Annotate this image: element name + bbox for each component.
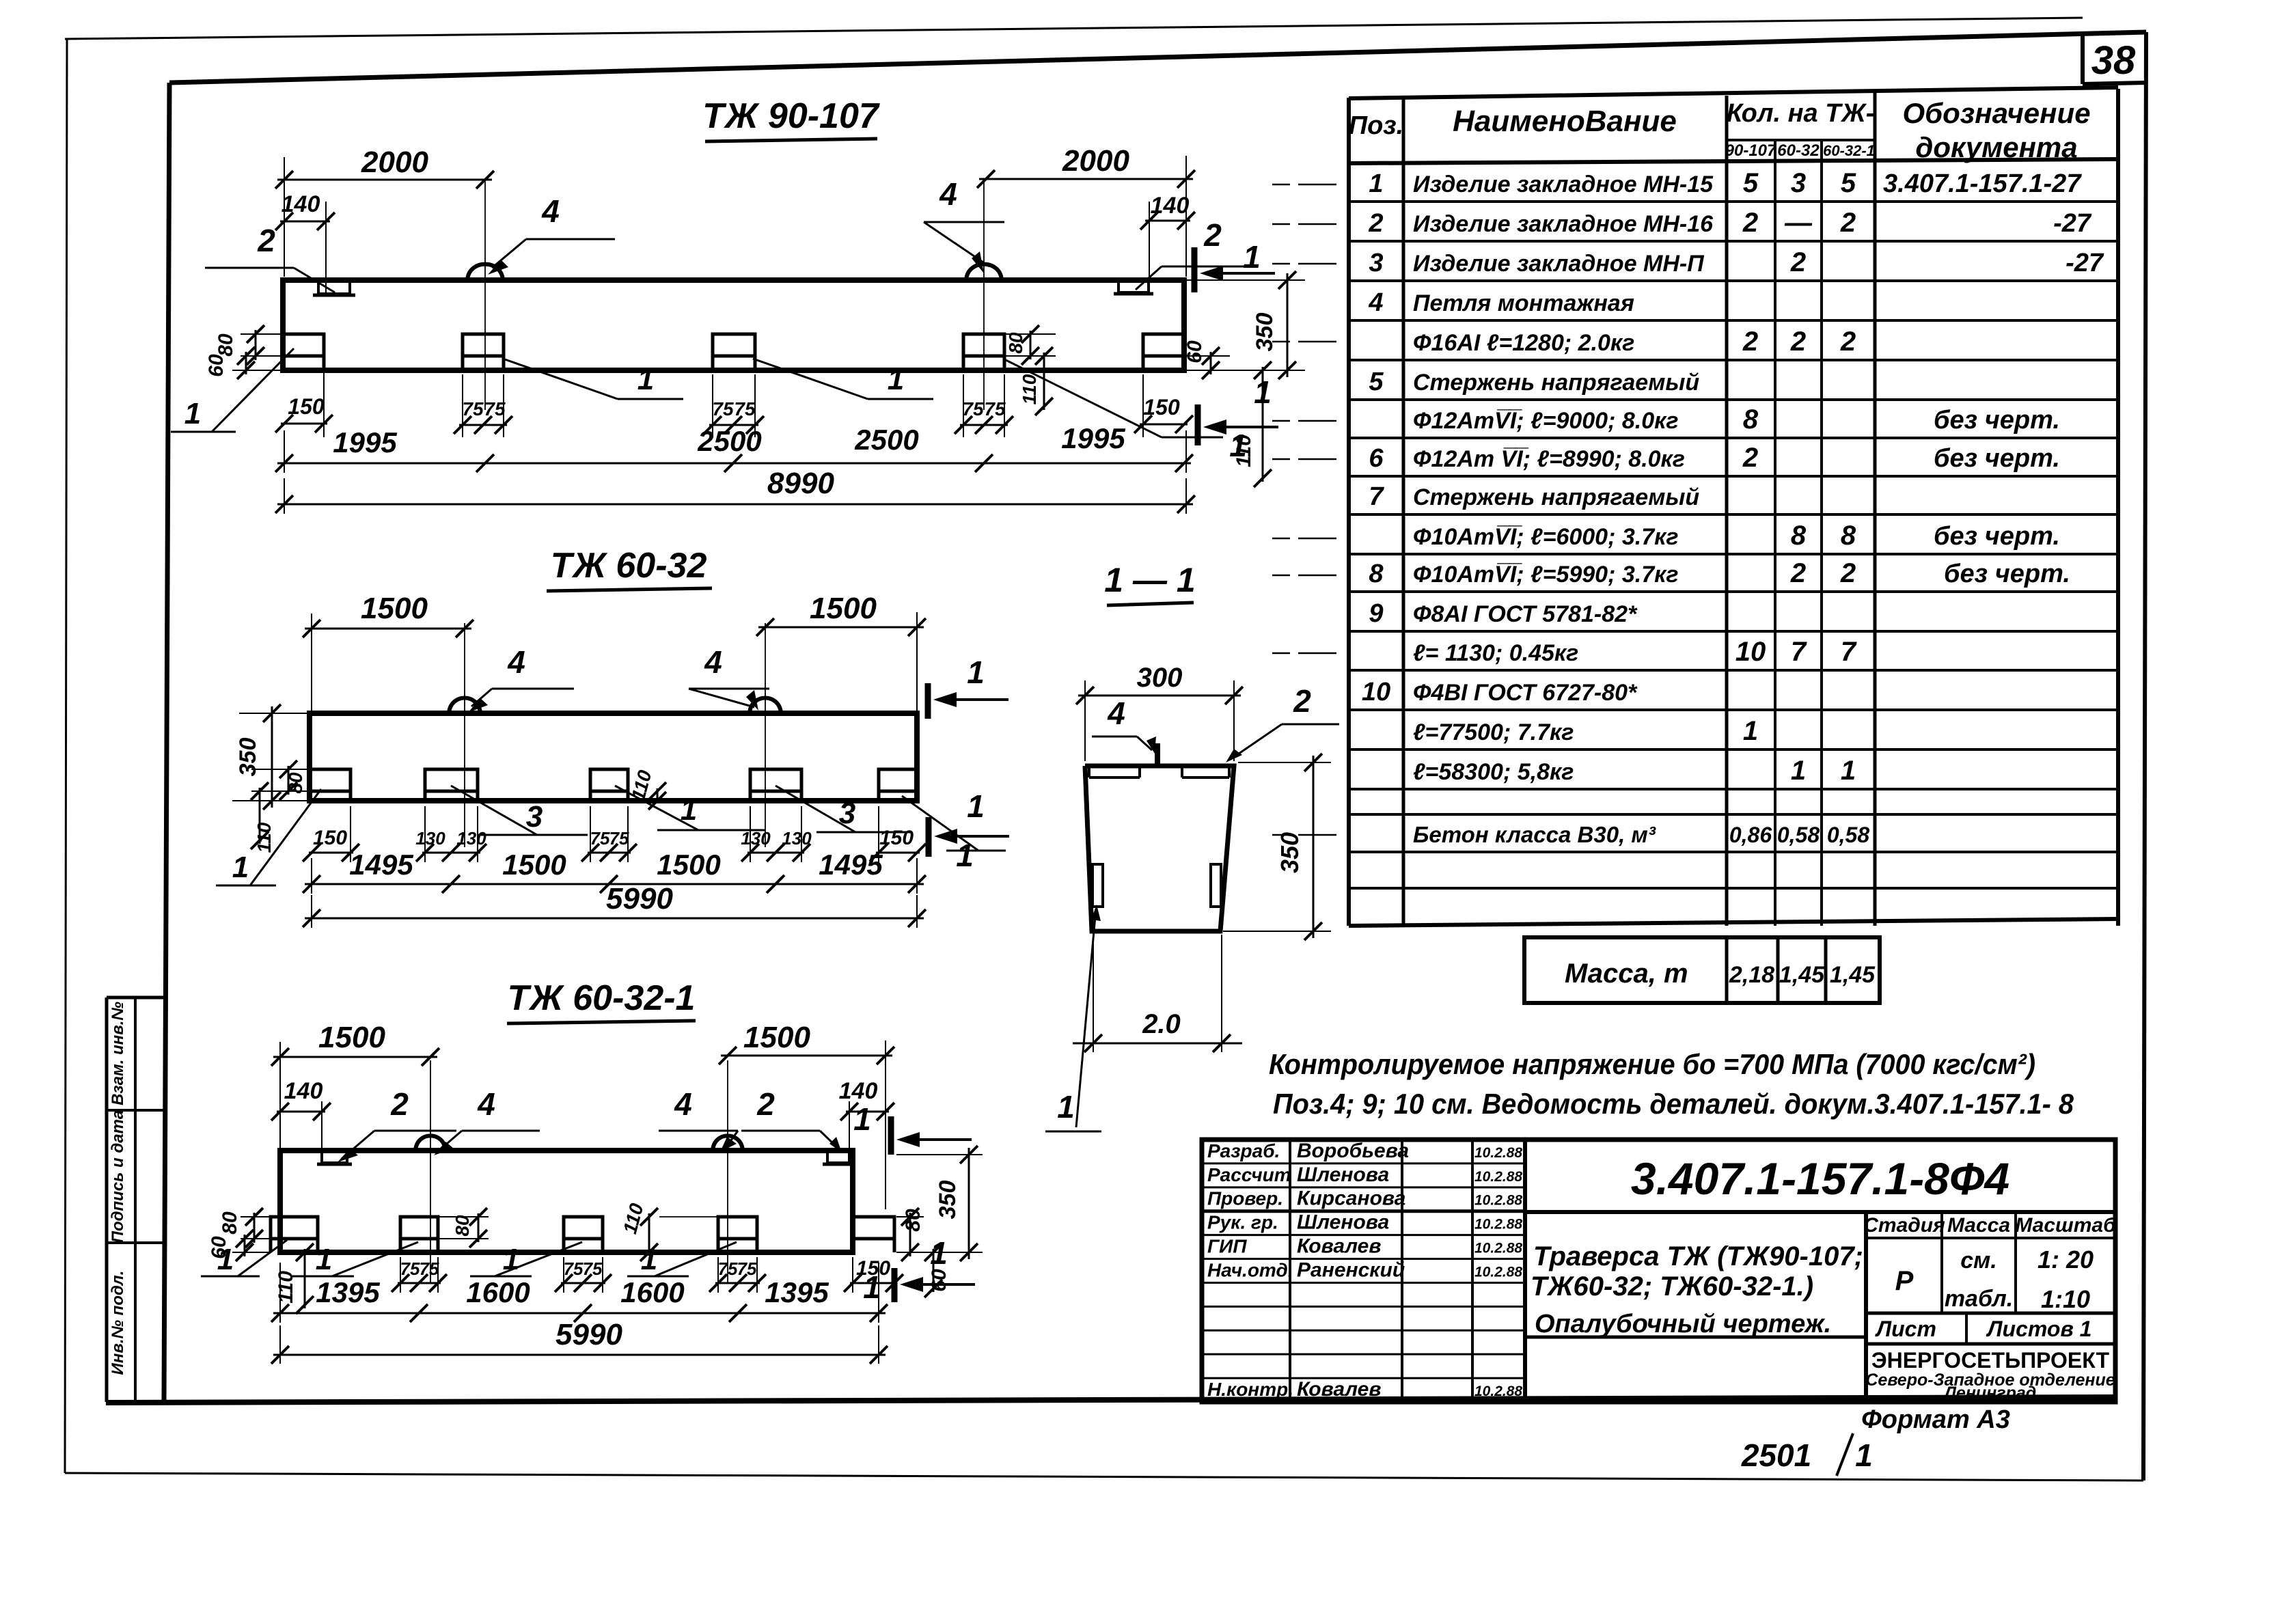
svg-text:8: 8 <box>1841 521 1856 551</box>
svg-text:350: 350 <box>935 1181 961 1220</box>
svg-text:1: 1 <box>217 1243 234 1276</box>
chain dimension 1995 2500 2500 1995 (beam 1) <box>284 430 285 473</box>
svg-text:1500: 1500 <box>657 849 720 881</box>
svg-text:2: 2 <box>1742 327 1758 357</box>
svg-text:3.407.1-157.1-8Ф4: 3.407.1-157.1-8Ф4 <box>1631 1153 2009 1204</box>
embedded plate item 1 slot 1 protruding left (beam 3) <box>271 1217 318 1252</box>
svg-text:ℓ= 1130; 0.45кг: ℓ= 1130; 0.45кг <box>1413 640 1578 666</box>
svg-text:2: 2 <box>257 223 275 258</box>
title block organization cell <box>1866 1343 2115 1346</box>
svg-text:2500: 2500 <box>697 425 761 457</box>
svg-text:60-32: 60-32 <box>1777 141 1820 160</box>
svg-text:10.2.88: 10.2.88 <box>1474 1217 1522 1233</box>
svg-text:Стержень напрягаемый: Стержень напрягаемый <box>1413 370 1699 396</box>
svg-text:150: 150 <box>1143 395 1180 419</box>
svg-text:350: 350 <box>1252 313 1278 352</box>
svg-text:10.2.88: 10.2.88 <box>1474 1169 1522 1185</box>
svg-text:Бетон класса В30, м³: Бетон класса В30, м³ <box>1413 822 1656 847</box>
svg-text:150: 150 <box>856 1257 890 1280</box>
section 1-1 trapezoid outline <box>1085 766 1234 931</box>
svg-text:2: 2 <box>756 1086 775 1122</box>
dimension 5990 overall (beam 2) <box>311 895 312 928</box>
svg-text:1: 1 <box>1791 756 1806 786</box>
svg-text:80: 80 <box>285 772 306 794</box>
svg-text:150: 150 <box>879 827 914 849</box>
svg-text:140: 140 <box>284 1078 323 1104</box>
svg-text:3: 3 <box>1369 249 1383 277</box>
svg-text:38: 38 <box>2091 38 2136 83</box>
dimension 60 80 left side (beam 1) <box>241 333 283 335</box>
svg-text:1500: 1500 <box>318 1021 385 1054</box>
svg-text:4: 4 <box>674 1086 692 1122</box>
svg-text:4: 4 <box>1368 288 1383 317</box>
svg-text:75: 75 <box>609 828 629 849</box>
svg-text:5990: 5990 <box>606 882 673 916</box>
svg-text:6: 6 <box>1369 444 1384 473</box>
svg-text:0,58: 0,58 <box>1777 823 1820 847</box>
svg-text:Шленова: Шленова <box>1297 1211 1389 1234</box>
svg-text:Взам. инв.№: Взам. инв.№ <box>109 1002 127 1105</box>
svg-text:1: 1 <box>853 1101 871 1137</box>
svg-text:1: 1 <box>967 788 985 824</box>
svg-text:75: 75 <box>962 398 984 419</box>
title block stadiya massa masshtab <box>1864 1212 1868 1402</box>
svg-text:4: 4 <box>704 644 722 680</box>
leader 1 slot 2 (beam 1) <box>503 359 618 399</box>
svg-text:75: 75 <box>564 1258 584 1279</box>
svg-text:1: 1 <box>232 851 249 884</box>
svg-text:1600: 1600 <box>466 1276 530 1308</box>
svg-text:Инв.№ подл.: Инв.№ подл. <box>109 1271 127 1375</box>
svg-text:Обозначение: Обозначение <box>1902 97 2090 129</box>
leader 1 slot 2 (beam 3) <box>332 1242 418 1276</box>
embedded plate item 3 slot 2 (beam 2) <box>425 769 478 801</box>
lifting loop item 4 right (beam 1) <box>966 264 1002 280</box>
svg-text:80: 80 <box>1005 332 1026 354</box>
svg-text:80: 80 <box>215 333 237 357</box>
svg-text:2.0: 2.0 <box>1142 1009 1181 1039</box>
svg-text:Масса, т: Масса, т <box>1565 959 1688 989</box>
svg-text:1: 1 <box>956 838 974 873</box>
svg-text:ГИП: ГИП <box>1207 1236 1247 1257</box>
svg-text:75: 75 <box>484 398 506 419</box>
svg-text:1395: 1395 <box>316 1276 380 1308</box>
svg-text:2: 2 <box>1203 217 1222 253</box>
svg-text:Изделие закладное МН-П: Изделие закладное МН-П <box>1413 251 1705 277</box>
svg-text:Нач.отд.: Нач.отд. <box>1207 1259 1293 1280</box>
svg-text:ℓ=58300; 5,8кг: ℓ=58300; 5,8кг <box>1413 759 1574 785</box>
title block designation cell <box>1525 1210 2115 1214</box>
section plate notch right <box>1182 776 1229 779</box>
svg-text:Стадия: Стадия <box>1863 1214 1945 1237</box>
svg-text:2: 2 <box>1368 209 1383 238</box>
leader 1 left end (beam 3) <box>238 1240 287 1276</box>
svg-text:2: 2 <box>1790 327 1806 357</box>
svg-text:75: 75 <box>737 1258 757 1279</box>
svg-text:10: 10 <box>1362 678 1390 706</box>
embedded plate item 1 slot 1 (beam 1) <box>283 334 324 370</box>
svg-text:2: 2 <box>1293 683 1311 719</box>
dimension 350 80 110 left side (beam 2) <box>239 713 310 714</box>
svg-text:1: 1 <box>184 397 201 430</box>
svg-text:2: 2 <box>1790 247 1806 277</box>
svg-text:75: 75 <box>400 1258 420 1279</box>
svg-text:3.407.1-157.1-27: 3.407.1-157.1-27 <box>1883 169 2082 198</box>
svg-text:60: 60 <box>205 354 228 377</box>
svg-text:7: 7 <box>1791 637 1807 667</box>
section flag 1-1 bottom right (beam 1) <box>1195 404 1201 445</box>
svg-text:130: 130 <box>415 828 445 849</box>
svg-text:Опалубочный чертеж.: Опалубочный чертеж. <box>1535 1310 1831 1338</box>
embedded plate item 3 slot 4 (beam 2) <box>750 769 801 801</box>
leader 1 slot 4 right (beam 1) <box>1003 359 1162 437</box>
svg-text:Изделие закладное МН-15: Изделие закладное МН-15 <box>1413 171 1714 197</box>
svg-text:1: 20: 1: 20 <box>2037 1245 2094 1274</box>
svg-text:80: 80 <box>452 1215 473 1237</box>
svg-text:0,58: 0,58 <box>1827 823 1869 847</box>
svg-text:75: 75 <box>984 398 1006 419</box>
svg-text:1,45: 1,45 <box>1779 962 1825 988</box>
leader 3 slot 2 (beam 2) <box>451 786 537 835</box>
svg-text:1 — 1: 1 — 1 <box>1104 561 1195 599</box>
svg-text:130: 130 <box>456 828 486 849</box>
svg-text:2: 2 <box>390 1086 409 1122</box>
svg-text:Раненский: Раненский <box>1297 1258 1405 1281</box>
sheet edge left (thin) <box>65 39 67 1473</box>
slot width dimensions 75 75 150 (beam 3) <box>400 1257 401 1293</box>
embedded plate item 1 slot 3 (beam 1) <box>713 334 755 370</box>
svg-text:7: 7 <box>1841 637 1857 667</box>
svg-text:8: 8 <box>1369 560 1384 588</box>
svg-text:1: 1 <box>503 1243 519 1276</box>
svg-text:Ковалев: Ковалев <box>1297 1235 1381 1258</box>
svg-text:ℓ=77500; 7.7кг: ℓ=77500; 7.7кг <box>1413 719 1574 745</box>
svg-text:75: 75 <box>462 398 484 419</box>
embedded plate item 1 slot 3 (beam 2) <box>590 769 628 801</box>
svg-text:Лист: Лист <box>1875 1317 1936 1341</box>
embedded plate item 1 slot 5 (beam 1) <box>1143 334 1184 370</box>
svg-text:350: 350 <box>235 738 261 777</box>
svg-text:-27: -27 <box>2053 209 2092 238</box>
svg-text:7: 7 <box>1369 482 1384 511</box>
svg-text:Воробьева: Воробьева <box>1297 1140 1409 1162</box>
svg-text:75: 75 <box>583 1258 603 1279</box>
svg-text:60: 60 <box>1183 340 1206 363</box>
svg-text:документа: документа <box>1915 131 2077 163</box>
title block signature grid <box>1202 1162 1525 1164</box>
svg-text:Подпись и дата: Подпись и дата <box>109 1110 127 1243</box>
svg-text:110: 110 <box>253 822 275 853</box>
svg-text:5: 5 <box>1841 168 1856 198</box>
frame right border <box>2143 32 2146 1481</box>
title block list row <box>1866 1312 2115 1315</box>
svg-text:Формат А3: Формат А3 <box>1861 1405 2010 1434</box>
svg-text:Кол. на ТЖ-: Кол. на ТЖ- <box>1727 99 1875 128</box>
lifting loop item 4 left (beam 2) <box>449 698 480 714</box>
dimension 60 and 350 right side (beam 1) <box>1186 279 1305 281</box>
svg-text:4: 4 <box>1107 696 1125 731</box>
section dimension 350 <box>1238 762 1331 763</box>
svg-text:5: 5 <box>1743 168 1759 198</box>
svg-text:1500: 1500 <box>361 592 428 625</box>
svg-text:1,45: 1,45 <box>1830 962 1876 988</box>
embedded plate slot 1 (beam 2) <box>310 769 351 801</box>
svg-text:1: 1 <box>888 363 904 396</box>
section flag 1-1 top right (beam 2) <box>925 683 931 719</box>
svg-text:-27: -27 <box>2066 249 2104 277</box>
svg-text:75: 75 <box>734 398 756 419</box>
svg-text:табл.: табл. <box>1945 1286 2013 1312</box>
svg-text:ТЖ 60-32: ТЖ 60-32 <box>551 546 707 586</box>
svg-text:1600: 1600 <box>620 1276 684 1308</box>
embedded plate item 1 slot 4 (beam 1) <box>963 334 1004 370</box>
svg-text:140: 140 <box>839 1078 878 1104</box>
svg-text:Ф8АI ГОСТ 5781-82*: Ф8АI ГОСТ 5781-82* <box>1413 601 1638 627</box>
svg-text:2: 2 <box>1742 208 1758 238</box>
svg-text:без черт.: без черт. <box>1934 444 2060 473</box>
svg-text:Масштаб: Масштаб <box>2015 1214 2117 1237</box>
leader 1 right end (beam 2) <box>902 796 978 851</box>
svg-text:Листов 1: Листов 1 <box>1986 1317 2092 1341</box>
svg-text:Ф16АI ℓ=1280; 2.0кг: Ф16АI ℓ=1280; 2.0кг <box>1413 330 1634 356</box>
slot width dimensions 150 75 75 (beam 1) <box>323 359 325 437</box>
svg-text:1495: 1495 <box>819 849 883 881</box>
page number box 38 <box>2081 33 2085 84</box>
svg-text:1: 1 <box>1855 1437 1873 1473</box>
section flag 1-1 top right (beam 1) <box>1192 247 1198 292</box>
svg-text:Поз.: Поз. <box>1349 111 1404 140</box>
svg-text:без черт.: без черт. <box>1934 406 2060 435</box>
embedded plate item 1 slot 4 (beam 3) <box>718 1217 757 1252</box>
svg-text:2: 2 <box>1790 558 1806 588</box>
svg-text:1: 1 <box>316 1243 332 1276</box>
svg-text:Кирсанова: Кирсанова <box>1297 1187 1405 1210</box>
svg-text:1:10: 1:10 <box>2041 1285 2090 1313</box>
svg-text:4: 4 <box>507 644 525 680</box>
svg-text:130: 130 <box>782 828 812 849</box>
svg-text:Ковалев: Ковалев <box>1297 1378 1381 1401</box>
title block outer box <box>1202 1140 2115 1402</box>
section flag 1-1 bottom right (beam 3) <box>892 1268 898 1302</box>
svg-text:1500: 1500 <box>743 1021 810 1054</box>
svg-text:без черт.: без черт. <box>1944 560 2070 588</box>
chain dimension 1495 1500 1500 1495 (beam 2) <box>311 858 312 894</box>
beam TZh 90-107 outline <box>283 280 1184 370</box>
section side slot right <box>1211 864 1221 907</box>
svg-text:10.2.88: 10.2.88 <box>1474 1384 1522 1399</box>
dimension 80 110 at slot 4 (beam 1) <box>1030 331 1032 359</box>
svg-text:4: 4 <box>477 1086 495 1122</box>
svg-text:80: 80 <box>219 1211 241 1235</box>
leader 3 slot 4 (beam 2) <box>776 786 855 832</box>
embedded plate item 2 top-left (beam 1) <box>318 280 350 294</box>
svg-text:1: 1 <box>1057 1089 1075 1125</box>
left margin column box <box>105 997 109 1402</box>
section side slot left <box>1093 864 1103 907</box>
slot width dimensions (beam 2) <box>350 806 351 862</box>
embedded plate slot 5 (beam 2) <box>879 769 917 801</box>
embedded plate item 1 slot 2 (beam 3) <box>400 1217 438 1252</box>
parts table grid <box>1349 87 2118 98</box>
svg-text:Провер.: Провер. <box>1207 1188 1283 1209</box>
svg-text:3: 3 <box>1791 168 1806 198</box>
svg-text:150: 150 <box>313 827 347 849</box>
svg-text:4: 4 <box>939 176 957 212</box>
svg-text:Шленова: Шленова <box>1297 1164 1389 1186</box>
embedded plate item 2 top-right (beam 3) <box>827 1151 849 1163</box>
leader 1 slot 3 (beam 3) <box>495 1242 582 1276</box>
svg-text:Рук. гр.: Рук. гр. <box>1207 1212 1278 1233</box>
dimension 110 at slot 3 (beam 2) <box>657 788 659 803</box>
embedded plate item 1 slot 2 (beam 1) <box>463 334 504 370</box>
svg-text:0,86: 0,86 <box>1729 823 1772 847</box>
svg-text:1995: 1995 <box>1061 422 1125 454</box>
sheet edge top (thin) <box>65 18 2083 39</box>
svg-text:75: 75 <box>712 398 734 419</box>
svg-text:Поз.4; 9; 10 см. Ведомость: Поз.4; 9; 10 см. Ведомость деталей. доку… <box>1273 1088 2074 1120</box>
svg-text:Изделие закладное МН-16: Изделие закладное МН-16 <box>1413 211 1714 237</box>
svg-text:1995: 1995 <box>333 426 397 458</box>
svg-text:1: 1 <box>1243 239 1261 275</box>
section plate notch left <box>1089 776 1140 779</box>
svg-text:2501: 2501 <box>1741 1437 1811 1473</box>
frame top border <box>169 32 2146 83</box>
svg-text:1: 1 <box>1743 716 1758 746</box>
svg-text:2000: 2000 <box>1062 144 1129 178</box>
lifting loop item 4 right (beam 3) <box>713 1136 743 1151</box>
svg-text:1: 1 <box>1369 169 1383 198</box>
svg-text:10.2.88: 10.2.88 <box>1474 1264 1522 1280</box>
svg-text:ТЖ 60-32-1: ТЖ 60-32-1 <box>508 978 696 1018</box>
svg-text:350: 350 <box>1276 832 1304 873</box>
svg-text:75: 75 <box>420 1258 439 1279</box>
svg-text:3: 3 <box>526 800 543 834</box>
svg-text:Ф4ВI ГОСТ 6727-80*: Ф4ВI ГОСТ 6727-80* <box>1413 680 1638 706</box>
svg-text:300: 300 <box>1137 663 1183 693</box>
dimension 5990 overall (beam 3) <box>279 1325 281 1364</box>
section flag 1-1 bottom right (beam 2) <box>926 817 932 857</box>
leader 1 slot 4 (beam 3) <box>655 1242 737 1276</box>
leader 1 left end (beam 1) <box>212 348 294 432</box>
svg-text:ЭНЕРГОСЕТЬПРОЕКТ: ЭНЕРГОСЕТЬПРОЕКТ <box>1871 1348 2110 1373</box>
svg-text:Петля монтажная: Петля монтажная <box>1413 290 1634 316</box>
svg-text:60: 60 <box>928 1269 950 1292</box>
svg-text:Н.контр.: Н.контр. <box>1207 1379 1293 1400</box>
svg-text:75: 75 <box>590 828 610 849</box>
dimension 80 110 mid (beam 3) <box>478 1213 480 1242</box>
svg-text:Контролируемое напряжение бо: Контролируемое напряжение бо =700 МПа (7… <box>1269 1048 2035 1080</box>
svg-text:Ф12АтV̅I̅; ℓ=9000; 8.0кг: Ф12АтV̅I̅; ℓ=9000; 8.0кг <box>1413 408 1679 434</box>
leader 1 slot 3 (beam 2) <box>615 786 698 830</box>
embedded plate item 1 slot 5 protruding right (beam 3) <box>853 1217 894 1252</box>
svg-text:1500: 1500 <box>810 592 877 625</box>
svg-text:2000: 2000 <box>361 146 428 179</box>
svg-text:80: 80 <box>902 1209 924 1232</box>
svg-text:1500: 1500 <box>502 849 566 881</box>
svg-text:1: 1 <box>641 1243 657 1276</box>
svg-text:Р: Р <box>1895 1266 1914 1296</box>
svg-text:—: — <box>1784 208 1813 238</box>
svg-text:60-32-1: 60-32-1 <box>1823 142 1875 159</box>
svg-text:Масса: Масса <box>1947 1214 2010 1237</box>
svg-text:10.2.88: 10.2.88 <box>1474 1241 1522 1256</box>
section loop bar item 4 <box>1155 743 1160 766</box>
svg-text:ТЖ60-32; ТЖ60-32-1.): ТЖ60-32; ТЖ60-32-1.) <box>1531 1271 1813 1302</box>
table row leader dashes <box>1298 184 1336 186</box>
svg-text:4: 4 <box>541 193 560 229</box>
sheet edge bottom (thin) <box>65 1473 2143 1481</box>
svg-text:1: 1 <box>681 793 697 827</box>
beam TZh 60-32-1 outline <box>280 1151 853 1252</box>
svg-text:2: 2 <box>1840 327 1856 357</box>
svg-text:5990: 5990 <box>555 1318 622 1351</box>
svg-text:1: 1 <box>1841 756 1856 786</box>
svg-text:Стержень напрягаемый: Стержень напрягаемый <box>1413 484 1699 510</box>
title block document name cell <box>1525 1336 1866 1339</box>
svg-text:2: 2 <box>1840 208 1856 238</box>
svg-text:2: 2 <box>1742 443 1758 473</box>
section flag 1-1 top right (beam 3) <box>888 1116 894 1155</box>
svg-text:Ф10АтV̅I̅; ℓ=6000; 3.7кг: Ф10АтV̅I̅; ℓ=6000; 3.7кг <box>1413 524 1679 550</box>
frame left border <box>164 83 169 1402</box>
dimension 8990 overall (beam 1) <box>284 478 285 514</box>
svg-text:Траверса ТЖ (ТЖ90-107;: Траверса ТЖ (ТЖ90-107; <box>1533 1241 1863 1271</box>
dimension 110 right side (beam 1) <box>1262 367 1264 482</box>
svg-text:Разраб.: Разраб. <box>1207 1140 1280 1161</box>
svg-text:1: 1 <box>637 363 654 396</box>
dimension 60 80 left side (beam 3) <box>241 1216 280 1217</box>
dimension 110 left side (beam 3) <box>304 1249 306 1308</box>
svg-text:Ф12Ат V̅I̅; ℓ=8990; 8.0кг: Ф12Ат V̅I̅; ℓ=8990; 8.0кг <box>1413 446 1685 472</box>
svg-text:75: 75 <box>718 1258 738 1279</box>
svg-text:Ф10АтV̅I̅; ℓ=5990; 3.7кг: Ф10АтV̅I̅; ℓ=5990; 3.7кг <box>1413 562 1679 588</box>
svg-text:10.2.88: 10.2.88 <box>1474 1145 1522 1161</box>
svg-text:90-107: 90-107 <box>1725 141 1777 160</box>
svg-text:130: 130 <box>741 828 771 849</box>
svg-text:150: 150 <box>288 394 325 419</box>
massa row box <box>1524 937 1880 1003</box>
beam TZh 60-32 outline <box>310 713 917 801</box>
svg-text:10: 10 <box>1735 637 1766 667</box>
svg-text:1395: 1395 <box>765 1276 829 1308</box>
svg-text:НаименоВание: НаименоВание <box>1453 105 1677 138</box>
leader 1 left end (beam 2) <box>250 789 321 885</box>
embedded plate item 1 slot 3 (beam 3) <box>564 1217 603 1252</box>
embedded plate item 2 top-left (beam 3) <box>322 1151 347 1163</box>
chain dimension 1395 1600 1600 1395 (beam 3) <box>279 1263 281 1323</box>
svg-text:110: 110 <box>1019 374 1040 404</box>
frame bottom border <box>106 1397 2115 1403</box>
svg-text:Рассчит: Рассчит <box>1207 1164 1291 1185</box>
lifting loop item 4 left (beam 1) <box>467 264 503 280</box>
leader 1 slot 3 (beam 1) <box>753 359 868 399</box>
svg-text:ТЖ 90-107: ТЖ 90-107 <box>702 96 880 136</box>
svg-text:8990: 8990 <box>767 467 834 500</box>
dimension 80 350 60 right side (beam 3) <box>896 1154 983 1155</box>
svg-text:2: 2 <box>1840 558 1856 588</box>
svg-text:2,18: 2,18 <box>1729 962 1774 988</box>
svg-text:5: 5 <box>1369 368 1384 396</box>
svg-text:140: 140 <box>282 191 320 217</box>
svg-text:10.2.88: 10.2.88 <box>1474 1193 1522 1209</box>
svg-text:1: 1 <box>967 655 985 690</box>
lifting loop item 4 left (beam 3) <box>415 1136 445 1151</box>
svg-text:см.: см. <box>1960 1248 1997 1274</box>
svg-text:8: 8 <box>1791 521 1807 551</box>
lifting loop item 4 right (beam 2) <box>750 698 781 714</box>
embedded plate item 2 top-right (beam 1) <box>1119 280 1149 292</box>
svg-text:1495: 1495 <box>349 849 413 881</box>
